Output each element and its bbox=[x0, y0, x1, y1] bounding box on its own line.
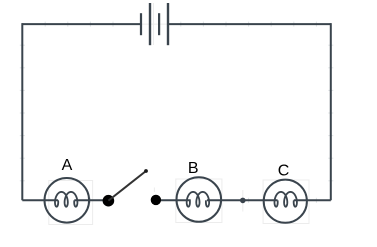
switch S1 lever tip bbox=[144, 169, 148, 173]
lamp C filament bbox=[274, 192, 296, 207]
battery negative plate 2 bbox=[158, 13, 160, 35]
lamp B (bulb envelope) bbox=[177, 177, 222, 222]
battery positive plate 1 bbox=[149, 3, 151, 45]
svg-text:C: C bbox=[278, 163, 290, 180]
lamp C (bulb envelope) bbox=[264, 180, 307, 223]
lamp A filament bbox=[55, 192, 77, 207]
switch S1 left contact bbox=[103, 195, 115, 207]
lamp B filament bbox=[187, 192, 209, 207]
wire switch to lamp B bbox=[156, 199, 191, 201]
battery negative plate 1 bbox=[140, 13, 142, 35]
wire left rail bbox=[21, 23, 23, 200]
junction node between lamp B and lamp C bbox=[240, 198, 246, 204]
svg-text:A: A bbox=[62, 157, 73, 174]
battery positive plate 2 bbox=[167, 3, 169, 45]
wire lamp B to lamp C bbox=[207, 199, 278, 201]
wire lamp A to switch bbox=[74, 199, 103, 201]
svg-text:B: B bbox=[188, 160, 199, 177]
lamp A (bulb envelope) bbox=[45, 178, 90, 223]
battery BT1 (two cells) bbox=[141, 3, 168, 45]
wire bottom-left to lamp A bbox=[22, 199, 58, 201]
switch S1 lever (open) bbox=[108, 171, 146, 201]
wire right rail bbox=[330, 23, 332, 200]
switch S1 right contact bbox=[151, 195, 161, 205]
wire lamp C to bottom-right corner bbox=[294, 199, 331, 201]
wire top-right (battery positive to right rail) bbox=[168, 23, 331, 25]
wire top-left (battery negative to left rail) bbox=[22, 23, 141, 25]
